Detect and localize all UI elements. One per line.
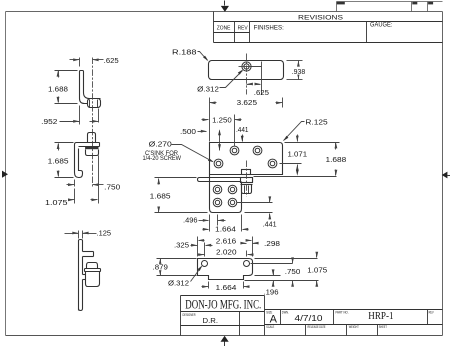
svg-text:.750: .750 bbox=[285, 267, 301, 276]
svg-text:WEIGHT: WEIGHT bbox=[349, 325, 359, 329]
svg-text:HRP-1: HRP-1 bbox=[368, 311, 393, 322]
svg-text:3.625: 3.625 bbox=[237, 98, 257, 107]
svg-text:1.250: 1.250 bbox=[212, 115, 232, 124]
svg-text:1.664: 1.664 bbox=[215, 224, 236, 233]
svg-text:ZONE: ZONE bbox=[217, 25, 231, 31]
svg-text:1.664: 1.664 bbox=[216, 283, 237, 292]
svg-text:DWN.: DWN. bbox=[282, 310, 289, 314]
svg-text:.298: .298 bbox=[264, 239, 280, 248]
svg-text:.441: .441 bbox=[263, 220, 277, 229]
svg-text:R.125: R.125 bbox=[305, 117, 327, 126]
svg-text:SHEET: SHEET bbox=[379, 325, 387, 329]
svg-text:.750: .750 bbox=[104, 182, 120, 191]
svg-text:REVISIONS: REVISIONS bbox=[298, 14, 343, 21]
svg-text:A: A bbox=[270, 313, 278, 325]
svg-text:Ø.270: Ø.270 bbox=[149, 140, 172, 149]
svg-text:DON-JO MFG. INC.: DON-JO MFG. INC. bbox=[185, 297, 261, 311]
svg-text:REV: REV bbox=[238, 25, 248, 31]
svg-text:.952: .952 bbox=[41, 117, 57, 126]
svg-text:1.688: 1.688 bbox=[326, 155, 347, 164]
svg-text:.625: .625 bbox=[104, 56, 119, 65]
svg-text:1.071: 1.071 bbox=[288, 149, 308, 158]
svg-text:2.020: 2.020 bbox=[216, 247, 237, 256]
svg-text:.196: .196 bbox=[264, 288, 279, 297]
svg-text:R.188: R.188 bbox=[172, 48, 197, 57]
svg-text:REV: REV bbox=[429, 310, 435, 314]
svg-text:.625: .625 bbox=[254, 88, 269, 97]
svg-text:1.075: 1.075 bbox=[45, 198, 68, 207]
svg-text:.125: .125 bbox=[97, 229, 112, 238]
svg-text:Ø.312: Ø.312 bbox=[197, 84, 219, 93]
svg-text:.325: .325 bbox=[174, 240, 189, 249]
svg-text:1.075: 1.075 bbox=[307, 265, 327, 274]
svg-text:.879: .879 bbox=[153, 263, 168, 272]
svg-text:Ø.312: Ø.312 bbox=[168, 279, 189, 288]
svg-text:DESIGNER: DESIGNER bbox=[183, 313, 197, 317]
svg-text:1.685: 1.685 bbox=[48, 156, 69, 165]
svg-text:.441: .441 bbox=[236, 125, 249, 134]
svg-text:D.R.: D.R. bbox=[203, 316, 219, 325]
svg-text:SCALE: SCALE bbox=[266, 325, 274, 329]
svg-text:1/4-20 SCREW: 1/4-20 SCREW bbox=[143, 155, 182, 162]
svg-text:PART NO.: PART NO. bbox=[336, 310, 349, 314]
svg-text:FINISHES:: FINISHES: bbox=[254, 26, 285, 32]
svg-text:.938: .938 bbox=[292, 67, 306, 76]
svg-text:.496: .496 bbox=[183, 216, 198, 225]
svg-text:2.616: 2.616 bbox=[216, 237, 236, 246]
svg-text:4/7/10: 4/7/10 bbox=[295, 313, 323, 323]
svg-text:GAUGE:: GAUGE: bbox=[370, 23, 393, 29]
svg-text:1.685: 1.685 bbox=[150, 192, 171, 201]
svg-text:1.688: 1.688 bbox=[48, 84, 68, 93]
svg-text:.500: .500 bbox=[180, 127, 196, 136]
svg-text:RELEASE DATE: RELEASE DATE bbox=[308, 325, 326, 329]
